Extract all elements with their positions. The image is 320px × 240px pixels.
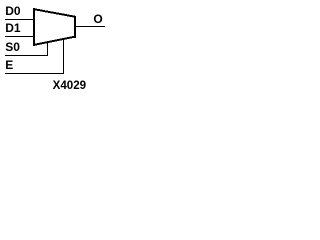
- wire E riser (vertical segment into mux bottom edge): [63, 39, 64, 73]
- mux left edge: [33, 8, 35, 46]
- svg-text:D1: D1: [5, 21, 21, 35]
- wire E input (horizontal segment): [5, 73, 64, 74]
- svg-text:S0: S0: [5, 40, 20, 54]
- wire O output: [76, 26, 105, 27]
- wire D1 input: [5, 36, 34, 37]
- mux top edge (slanted): [33, 8, 76, 18]
- mux U1 (2-to-1 multiplexer trapezoid body, instance X4029): [5, 8, 105, 74]
- svg-text:X4029: X4029: [53, 79, 87, 92]
- mux right edge: [74, 16, 76, 38]
- svg-text:O: O: [93, 12, 102, 26]
- mux bottom edge (slanted): [33, 35, 76, 46]
- svg-text:D0: D0: [5, 4, 21, 18]
- wire S0 riser (vertical segment into mux bottom edge): [47, 42, 48, 55]
- wire S0 input (horizontal segment): [5, 55, 48, 56]
- svg-text:E: E: [5, 58, 13, 72]
- wire D0 input: [5, 19, 34, 20]
